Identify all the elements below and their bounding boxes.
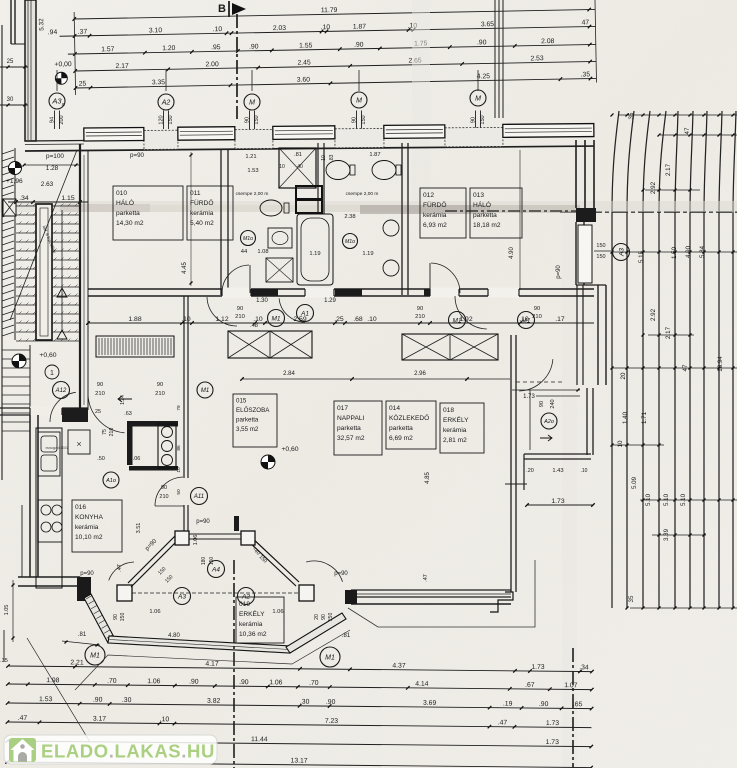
svg-text:.90: .90 bbox=[539, 701, 549, 708]
svg-text:M1: M1 bbox=[325, 655, 335, 662]
bay pier left bbox=[77, 577, 91, 601]
entry door bbox=[50, 392, 76, 422]
svg-text:14,30 m2: 14,30 m2 bbox=[116, 220, 144, 227]
svg-text:.10: .10 bbox=[160, 716, 170, 723]
svg-text:75: 75 bbox=[102, 429, 108, 435]
svg-text:B: B bbox=[218, 3, 226, 15]
level mark +1.96 bbox=[9, 162, 22, 175]
svg-text:1.73: 1.73 bbox=[531, 664, 545, 671]
svg-text:A3: A3 bbox=[618, 248, 625, 257]
svg-text:5,40 m2: 5,40 m2 bbox=[190, 220, 214, 227]
svg-text:+1,96: +1,96 bbox=[6, 178, 23, 185]
room 010 HALO bbox=[113, 186, 183, 240]
svg-text:.95: .95 bbox=[211, 44, 221, 51]
balcony right wall upper bbox=[597, 285, 599, 385]
radiator nook walls bbox=[127, 421, 178, 427]
section line bottom vertical bbox=[233, 560, 235, 768]
offset line around bay bbox=[75, 630, 350, 690]
shaft boxes corridor left bbox=[228, 331, 312, 358]
living room east wall lower bbox=[505, 591, 511, 593]
svg-text:4.90: 4.90 bbox=[685, 245, 692, 258]
bay top piers bbox=[175, 531, 189, 545]
adjacent building hatch lines bbox=[612, 111, 619, 608]
extension verticals top bbox=[74, 12, 76, 95]
level mark +0.60 eloszoba bbox=[261, 455, 275, 469]
room 015 ELOSZOBA bbox=[233, 394, 277, 447]
svg-text:015: 015 bbox=[236, 397, 247, 404]
svg-text:11.44: 11.44 bbox=[251, 736, 268, 743]
svg-text:.90: .90 bbox=[239, 679, 249, 686]
right wall below crease bbox=[576, 208, 596, 222]
svg-text:010: 010 bbox=[116, 190, 127, 197]
svg-text:M1: M1 bbox=[271, 315, 280, 322]
svg-text:1.71: 1.71 bbox=[641, 411, 648, 424]
room 017 NAPPALI bbox=[334, 401, 382, 455]
svg-text:1.30: 1.30 bbox=[256, 298, 268, 304]
room 014 KOZLEKEDO bbox=[386, 401, 436, 449]
svg-text:10.94: 10.94 bbox=[717, 356, 724, 372]
svg-text:90: 90 bbox=[97, 382, 103, 388]
svg-text:+0,60: +0,60 bbox=[39, 352, 56, 359]
svg-text:parketta: parketta bbox=[236, 417, 259, 424]
svg-text:.47: .47 bbox=[423, 574, 429, 582]
svg-text:150: 150 bbox=[596, 243, 605, 249]
radiator column hall bbox=[158, 424, 176, 468]
svg-text:FÜRDŐ: FÜRDŐ bbox=[190, 198, 213, 207]
svg-text:210: 210 bbox=[155, 391, 165, 397]
svg-text:150: 150 bbox=[209, 557, 215, 566]
svg-text:1.05: 1.05 bbox=[4, 605, 10, 616]
balcony south wall bbox=[108, 636, 291, 653]
svg-text:1.73: 1.73 bbox=[523, 394, 535, 400]
interior wall bath011/bath012 bbox=[317, 143, 319, 214]
interior wall bath012/halo013 bbox=[401, 143, 403, 295]
svg-text:1.87: 1.87 bbox=[369, 152, 380, 158]
svg-text:.30: .30 bbox=[122, 697, 132, 704]
top dimension row 4 bbox=[75, 61, 596, 71]
svg-text:3.39: 3.39 bbox=[663, 528, 670, 541]
svg-text:2.45: 2.45 bbox=[297, 59, 311, 66]
svg-text:79: 79 bbox=[176, 405, 182, 411]
svg-text:csempe 2,00 m: csempe 2,00 m bbox=[346, 191, 379, 197]
svg-text:3.65: 3.65 bbox=[481, 21, 495, 28]
svg-text:10: 10 bbox=[321, 155, 327, 161]
door room 010 bbox=[207, 297, 237, 326]
svg-text:.19: .19 bbox=[503, 701, 513, 708]
svg-text:M: M bbox=[356, 98, 362, 105]
svg-text:A11: A11 bbox=[193, 494, 204, 500]
svg-text:2.08: 2.08 bbox=[541, 38, 555, 45]
svg-text:20: 20 bbox=[620, 372, 627, 379]
stair bottom flight bbox=[2, 349, 30, 351]
svg-text:35: 35 bbox=[628, 595, 635, 602]
svg-text:3.17: 3.17 bbox=[93, 716, 107, 723]
svg-text:25: 25 bbox=[79, 81, 87, 88]
svg-text:120: 120 bbox=[159, 115, 165, 124]
kitchen south wall bbox=[18, 576, 80, 578]
svg-text:A4: A4 bbox=[211, 566, 220, 573]
door bath012 bbox=[431, 263, 460, 293]
svg-text:NAPPALI: NAPPALI bbox=[337, 415, 365, 422]
svg-text:6,93 m2: 6,93 m2 bbox=[423, 222, 447, 229]
svg-text:⨯: ⨯ bbox=[76, 441, 82, 448]
kitchen counter bbox=[36, 428, 62, 588]
closet hatch room 010 bbox=[96, 336, 174, 357]
svg-text:2.92: 2.92 bbox=[650, 308, 657, 321]
svg-text:.70: .70 bbox=[309, 680, 319, 687]
svg-text:011: 011 bbox=[190, 190, 201, 197]
top dimension row 5 bbox=[76, 78, 597, 88]
svg-text:1.73: 1.73 bbox=[546, 739, 560, 746]
svg-text:KÖZLEKEDŐ: KÖZLEKEDŐ bbox=[389, 413, 429, 422]
svg-text:150: 150 bbox=[596, 254, 605, 260]
erkely 018 right wall bbox=[586, 388, 588, 455]
interior axis circles bbox=[241, 231, 256, 246]
svg-text:40: 40 bbox=[297, 164, 303, 170]
svg-text:1.87: 1.87 bbox=[353, 23, 367, 30]
svg-text:+0,00: +0,00 bbox=[54, 61, 72, 68]
door entry-nook bbox=[88, 394, 125, 432]
stair diagonal line bbox=[10, 150, 77, 320]
svg-text:4.17: 4.17 bbox=[205, 661, 219, 668]
shaft boxes corridor right bbox=[402, 334, 498, 360]
duct between baths bbox=[296, 186, 322, 199]
svg-text:6,69 m2: 6,69 m2 bbox=[389, 435, 413, 442]
top wall window units bbox=[84, 127, 144, 141]
fold crease vertical bbox=[412, 0, 430, 205]
svg-text:kerámia: kerámia bbox=[190, 210, 214, 217]
svg-text:150: 150 bbox=[361, 115, 367, 124]
room 019 ERKELY bbox=[236, 597, 284, 643]
triple vertical line right bbox=[494, 0, 496, 118]
svg-text:90: 90 bbox=[417, 306, 423, 312]
left wall bundle top bbox=[25, 0, 36, 141]
bottom dim row 1 bbox=[8, 666, 592, 672]
svg-text:1.06: 1.06 bbox=[149, 609, 160, 615]
entry arrow bbox=[118, 396, 132, 402]
svg-text:.10: .10 bbox=[519, 316, 529, 323]
section line A through plan bbox=[445, 210, 576, 212]
svg-text:.50: .50 bbox=[97, 456, 105, 462]
svg-text:90: 90 bbox=[321, 614, 327, 620]
svg-text:kerámia: kerámia bbox=[443, 427, 467, 434]
svg-text:1.55: 1.55 bbox=[299, 42, 313, 49]
svg-text:3.51: 3.51 bbox=[136, 523, 142, 534]
svg-text:kerámia: kerámia bbox=[423, 212, 447, 219]
svg-text:5.84: 5.84 bbox=[699, 245, 706, 258]
svg-text:KONYHA: KONYHA bbox=[75, 514, 103, 521]
svg-text:.30: .30 bbox=[300, 699, 310, 706]
svg-text:013: 013 bbox=[473, 192, 484, 199]
svg-text:.67: .67 bbox=[525, 682, 535, 689]
left wall dim ticks bbox=[0, 66, 28, 68]
svg-text:4.80: 4.80 bbox=[168, 633, 180, 639]
svg-text:csempe 2,00 m: csempe 2,00 m bbox=[236, 191, 269, 197]
svg-text:47: 47 bbox=[682, 364, 689, 371]
svg-text:.47: .47 bbox=[498, 720, 508, 727]
svg-text:ELADO.LAKAS.HU: ELADO.LAKAS.HU bbox=[41, 741, 215, 762]
room 018 ERKELY bbox=[440, 403, 484, 453]
svg-text:014: 014 bbox=[389, 405, 400, 412]
svg-text:.90: .90 bbox=[189, 679, 199, 686]
svg-text:1.24: 1.24 bbox=[120, 395, 126, 405]
svg-text:M1o: M1o bbox=[345, 239, 355, 245]
corridor door openings bbox=[222, 288, 251, 298]
svg-text:1.08: 1.08 bbox=[257, 249, 268, 255]
erkely018 door bbox=[519, 359, 553, 391]
balcony door left bbox=[109, 562, 134, 580]
svg-text:HÁLÓ: HÁLÓ bbox=[116, 198, 134, 207]
svg-text:2.96: 2.96 bbox=[414, 371, 426, 377]
erkely 018 bottom wall bbox=[524, 453, 591, 455]
svg-text:ERKÉLY: ERKÉLY bbox=[239, 609, 265, 618]
svg-text:A3: A3 bbox=[177, 593, 186, 600]
svg-text:kerámia: kerámia bbox=[239, 621, 263, 628]
interior wall room010/bath011 bbox=[220, 149, 222, 295]
entry door wall piece bbox=[62, 408, 88, 422]
svg-text:2.17: 2.17 bbox=[115, 63, 129, 70]
svg-text:1.57: 1.57 bbox=[101, 46, 115, 53]
erkely018 1.73 dim bbox=[512, 389, 580, 391]
stair handrail bbox=[36, 204, 52, 340]
bottom dim row 5 bbox=[7, 741, 591, 747]
grid axis circle M1 bbox=[244, 94, 260, 110]
svg-text:a: a bbox=[62, 102, 65, 108]
interior dim row under corridor bbox=[88, 322, 594, 324]
svg-text:210: 210 bbox=[159, 494, 168, 500]
grid axis circle A2 bbox=[158, 94, 174, 110]
svg-text:A12: A12 bbox=[55, 388, 67, 394]
corridor wall horizontal bbox=[88, 288, 594, 290]
bottom left diagonal bbox=[27, 638, 90, 742]
svg-text:parketta: parketta bbox=[473, 212, 497, 219]
door room 013 bbox=[455, 296, 487, 329]
svg-text:5.32: 5.32 bbox=[38, 18, 45, 31]
svg-text:.47: .47 bbox=[18, 715, 28, 722]
svg-text:M: M bbox=[249, 100, 255, 107]
svg-text:150: 150 bbox=[120, 613, 126, 622]
svg-text:25: 25 bbox=[7, 59, 14, 65]
svg-text:1.53: 1.53 bbox=[247, 168, 258, 174]
svg-text:2.92: 2.92 bbox=[650, 181, 657, 194]
svg-text:150: 150 bbox=[168, 115, 174, 124]
svg-text:.10: .10 bbox=[213, 26, 223, 33]
svg-text:2.21: 2.21 bbox=[70, 659, 84, 666]
bottom dim row 2 bbox=[8, 684, 592, 690]
svg-text:1.06: 1.06 bbox=[147, 678, 161, 685]
svg-text:mosogató 100/2: mosogató 100/2 bbox=[46, 446, 69, 450]
svg-text:47: 47 bbox=[582, 19, 590, 26]
svg-text:210: 210 bbox=[415, 314, 425, 320]
svg-text:1.20: 1.20 bbox=[162, 45, 176, 52]
svg-text:.81: .81 bbox=[78, 632, 87, 638]
bay diagonal wall right bbox=[286, 613, 346, 653]
svg-text:18,18 m2: 18,18 m2 bbox=[473, 222, 501, 229]
svg-text:.65: .65 bbox=[573, 701, 583, 708]
bay pier A3 bbox=[117, 585, 132, 601]
left exterior wall bbox=[79, 144, 81, 410]
svg-text:150: 150 bbox=[254, 115, 260, 124]
svg-text:3,55 m2: 3,55 m2 bbox=[236, 426, 259, 433]
svg-text:20: 20 bbox=[314, 614, 320, 620]
bath 011 wc bbox=[260, 200, 282, 216]
bottom dim row 4 bbox=[7, 722, 591, 728]
svg-text:2,81 m2: 2,81 m2 bbox=[443, 437, 467, 444]
svg-text:.20: .20 bbox=[526, 468, 534, 474]
svg-text:240: 240 bbox=[550, 399, 556, 408]
svg-text:.10: .10 bbox=[253, 316, 263, 323]
svg-text:ERKÉLY: ERKÉLY bbox=[443, 415, 469, 424]
svg-text:.94: .94 bbox=[48, 29, 58, 36]
room 012 FURDO bbox=[420, 188, 466, 238]
svg-text:210: 210 bbox=[95, 391, 105, 397]
svg-text:3.69: 3.69 bbox=[423, 700, 437, 707]
svg-text:M: M bbox=[475, 96, 481, 103]
svg-text:.47: .47 bbox=[117, 564, 123, 572]
svg-text:90: 90 bbox=[113, 614, 119, 620]
top exterior wall bbox=[25, 136, 594, 141]
grid axis circle M2 bbox=[351, 92, 367, 108]
svg-text:2.63: 2.63 bbox=[41, 181, 54, 188]
svg-text:1.28: 1.28 bbox=[46, 165, 59, 172]
svg-text:017: 017 bbox=[337, 405, 348, 412]
erkely018 entry arrow bbox=[540, 435, 552, 441]
svg-text:1.92: 1.92 bbox=[459, 316, 472, 323]
svg-text:1.19: 1.19 bbox=[309, 251, 320, 257]
svg-text:5.10: 5.10 bbox=[680, 493, 687, 506]
bottom right step corner bbox=[490, 592, 513, 612]
svg-text:50: 50 bbox=[176, 489, 182, 495]
svg-text:A2: A2 bbox=[161, 100, 171, 107]
svg-text:.34: .34 bbox=[19, 195, 29, 202]
svg-text:150: 150 bbox=[328, 613, 334, 622]
grid axis circle M3 bbox=[470, 90, 486, 106]
svg-text:2.59: 2.59 bbox=[293, 316, 306, 323]
svg-text:2.17: 2.17 bbox=[665, 163, 672, 176]
svg-text:1.73: 1.73 bbox=[551, 498, 564, 505]
door bath011 bbox=[222, 265, 249, 293]
svg-text:4.14: 4.14 bbox=[415, 681, 429, 688]
svg-text:10: 10 bbox=[279, 164, 285, 170]
bath 011 shower2 bbox=[266, 258, 293, 282]
bath 012 sinks bbox=[383, 220, 399, 236]
svg-text:200: 200 bbox=[59, 115, 65, 124]
bay glass line bbox=[132, 592, 299, 594]
svg-text:HÁLÓ: HÁLÓ bbox=[473, 200, 491, 209]
svg-text:2.17: 2.17 bbox=[665, 326, 672, 339]
svg-text:4.85: 4.85 bbox=[425, 472, 431, 484]
stair arrows bbox=[57, 288, 67, 297]
svg-text:016: 016 bbox=[75, 504, 86, 511]
svg-text:.90: .90 bbox=[326, 699, 336, 706]
svg-text:2.00: 2.00 bbox=[205, 61, 219, 68]
svg-text:90: 90 bbox=[245, 117, 251, 123]
svg-text:1.12: 1.12 bbox=[215, 316, 228, 323]
svg-text:35: 35 bbox=[628, 112, 635, 119]
svg-text:.10: .10 bbox=[181, 316, 191, 323]
svg-text:90: 90 bbox=[534, 306, 540, 312]
bottom dim row 3 bbox=[8, 703, 592, 709]
svg-text:.83: .83 bbox=[329, 154, 335, 161]
svg-text:.17: .17 bbox=[555, 316, 565, 323]
svg-text:.35: .35 bbox=[0, 658, 8, 664]
svg-text:10,10 m2: 10,10 m2 bbox=[75, 534, 103, 541]
bathtub bbox=[297, 214, 333, 285]
crease band horizontal bbox=[0, 201, 737, 212]
svg-text:4.25: 4.25 bbox=[477, 73, 491, 80]
svg-text:86: 86 bbox=[176, 445, 182, 451]
door hall-kitchen bbox=[155, 477, 183, 506]
svg-text:1.40: 1.40 bbox=[622, 411, 629, 424]
svg-text:p=90: p=90 bbox=[556, 265, 562, 279]
svg-text:.70: .70 bbox=[107, 678, 117, 685]
watermark container bbox=[4, 735, 217, 764]
hall west wall bbox=[183, 296, 185, 478]
lower-left entry walls bbox=[0, 407, 88, 409]
watermark house icon bbox=[9, 738, 36, 762]
svg-text:2.53: 2.53 bbox=[530, 55, 544, 62]
svg-text:.90: .90 bbox=[249, 43, 259, 50]
svg-text:13.17: 13.17 bbox=[291, 758, 308, 765]
svg-text:.90: .90 bbox=[477, 39, 487, 46]
kitchen stove bbox=[38, 500, 62, 542]
svg-text:A2: A2 bbox=[241, 593, 250, 600]
svg-text:5.15: 5.15 bbox=[638, 250, 645, 263]
svg-text:1.29: 1.29 bbox=[324, 298, 336, 304]
svg-text:90: 90 bbox=[157, 382, 163, 388]
top dimension row 3 bbox=[68, 44, 596, 54]
room 011 FURDO bbox=[187, 186, 233, 240]
bath 012 wc pair bbox=[326, 161, 350, 180]
svg-text:3.35: 3.35 bbox=[152, 79, 166, 86]
svg-text:1.07: 1.07 bbox=[564, 682, 578, 689]
svg-text:kerámia: kerámia bbox=[75, 524, 99, 531]
top wall piers bbox=[144, 130, 178, 149]
svg-text:90: 90 bbox=[471, 117, 477, 123]
grid extension lines bbox=[54, 111, 56, 130]
left wall hatch strip bbox=[2, 150, 14, 154]
svg-text:ELŐSZOBA: ELŐSZOBA bbox=[236, 407, 270, 414]
svg-text:90: 90 bbox=[237, 306, 243, 312]
svg-text:.35: .35 bbox=[581, 71, 591, 78]
svg-text:1.06: 1.06 bbox=[272, 609, 283, 615]
svg-text:+0,60: +0,60 bbox=[281, 446, 298, 453]
svg-text:5.10: 5.10 bbox=[645, 493, 652, 506]
room 013 HALO bbox=[470, 188, 522, 238]
svg-text:1.06: 1.06 bbox=[269, 679, 283, 686]
kitchen fridge bbox=[68, 430, 90, 454]
erkely 018 inner lines bbox=[529, 390, 531, 450]
svg-text:A2o: A2o bbox=[543, 419, 554, 425]
dims .34 1.15 bbox=[8, 201, 88, 203]
svg-text:1: 1 bbox=[50, 370, 54, 377]
svg-text:.10: .10 bbox=[321, 24, 331, 31]
svg-text:10: 10 bbox=[617, 440, 624, 447]
svg-text:11.79: 11.79 bbox=[321, 7, 338, 14]
svg-text:parketta: parketta bbox=[116, 210, 140, 217]
svg-text:4.37: 4.37 bbox=[392, 662, 406, 669]
svg-text:1.06: 1.06 bbox=[193, 535, 199, 546]
svg-text:.90: .90 bbox=[354, 42, 364, 49]
svg-text:.48: .48 bbox=[250, 323, 258, 329]
svg-text:210: 210 bbox=[532, 314, 542, 320]
level mark +0.60 left bbox=[12, 354, 26, 368]
svg-text:p=100: p=100 bbox=[46, 153, 64, 160]
svg-text:90: 90 bbox=[539, 401, 545, 407]
svg-text:210: 210 bbox=[109, 428, 115, 437]
erkely018 top dashed opening bbox=[516, 381, 562, 383]
svg-text:FÜRDŐ: FÜRDŐ bbox=[423, 200, 446, 209]
